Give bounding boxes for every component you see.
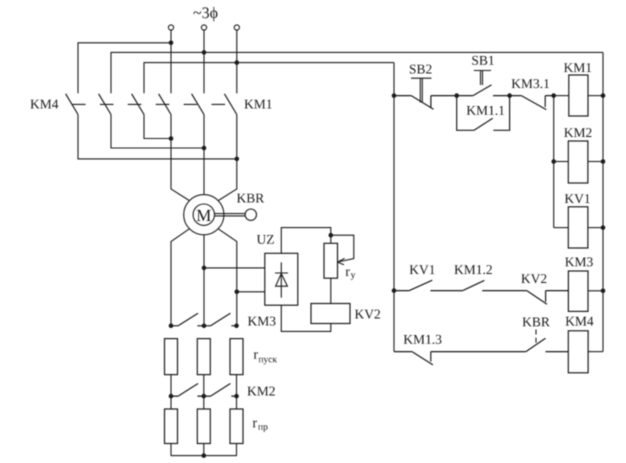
node KM2 dot2: [202, 394, 207, 399]
contact KBR dashed link: [535, 330, 537, 345]
resistor r_pusk 2: [197, 339, 210, 375]
wire phase1 vertical: [170, 30, 172, 93]
contactor KM1 pole1: [159, 94, 171, 115]
sensor KBR label: [237, 194, 264, 203]
node SB1 right junction: [507, 93, 512, 98]
contact KM3 label: [248, 317, 276, 326]
wiper loop of ry: [331, 235, 354, 262]
node KM2 dot1: [169, 394, 174, 399]
sensor KBR shaft double line: [214, 214, 245, 216]
coil KM4: [568, 331, 588, 373]
resistor r_pr 1: [165, 409, 178, 444]
wire KM4 pole2 lower to phase2 node: [111, 115, 204, 149]
contactor KM4 pole2: [99, 94, 111, 115]
coil KM1 label: [564, 63, 591, 72]
wire feed3 to KM4 pole3 and control left rail: [144, 63, 394, 94]
node junction phase1: [169, 41, 174, 46]
node junction pole3-phase1: [169, 136, 174, 141]
node junction phase2: [202, 50, 207, 55]
rectifier UZ box: [265, 253, 298, 305]
node SB2-SB1 junction: [454, 93, 459, 98]
contact KV2 NC: [527, 291, 569, 305]
wire branch3 mid: [236, 375, 238, 409]
contact KV1 label: [410, 265, 435, 274]
contact KM1.1 label: [467, 106, 504, 115]
relay KV2 label: [355, 310, 380, 319]
wire control right rail: [602, 52, 604, 351]
wire branch1 mid: [170, 375, 172, 409]
node KM3 dot3: [234, 324, 239, 329]
resistor r_pr label: [253, 421, 257, 428]
wire motor lead2 top: [203, 115, 205, 195]
wire KM4 pole1 lower to phase3 node: [78, 115, 237, 159]
wire motor lead3 bottom: [218, 229, 237, 326]
contactor KM4 pole3: [132, 94, 144, 115]
node left rail SB2 junction: [392, 93, 397, 98]
terminal L1: [168, 25, 173, 30]
node KM3 right rail junction: [601, 289, 606, 294]
contactor KM1 pole3: [224, 94, 236, 115]
node KM2 right rail junction: [601, 159, 606, 164]
wire branch to KM2 KV1: [553, 96, 555, 228]
contact KM3.1 label: [512, 79, 549, 88]
coil KM2 label: [564, 128, 591, 137]
wire phase2 vertical: [203, 30, 205, 93]
contact KM1.2 NO: [463, 280, 527, 290]
node KM2 left junction: [551, 159, 556, 164]
node junction pole1-phase3: [235, 157, 240, 162]
contact KM1.3 label: [404, 335, 442, 344]
contact KBR NO: [526, 338, 568, 351]
contact KM3 bridge1: [171, 313, 211, 326]
resistor r_pr 2: [197, 409, 210, 444]
contact KM2 bridge1: [171, 384, 211, 397]
node KM3 dot1: [169, 324, 174, 329]
button SB2 actuator: [411, 78, 432, 102]
wire feed2 to KM4 pole2 and control top rail: [111, 52, 603, 93]
wire branch2 mid: [203, 375, 205, 409]
wire control left rail: [393, 63, 395, 352]
coil KM3: [568, 271, 588, 311]
motor M inner circle: [193, 204, 214, 225]
node junction pole2-phase2: [202, 146, 207, 151]
wire KM4 pole3 lower to phase1 node: [144, 115, 171, 139]
wire motor lead3 top: [218, 115, 237, 201]
contact KM3.1 NC: [510, 96, 554, 110]
node junction tap2: [235, 290, 240, 295]
contactor KM4 label: [30, 100, 58, 109]
coil KM1: [554, 95, 569, 97]
wire UZ input tap1: [204, 267, 265, 269]
wire motor lead2 bottom: [203, 235, 205, 326]
node star junction: [202, 453, 207, 458]
wire UZ top to ry: [281, 228, 331, 254]
node junction phase3: [235, 60, 240, 65]
coil KV1: [554, 227, 569, 229]
node left rail KV1 row junction: [392, 288, 397, 293]
resistor r_pusk 3: [230, 339, 243, 375]
button SB1 contact NO: [457, 85, 510, 96]
node ~3phi label: [193, 7, 217, 22]
diode inside UZ: [275, 262, 288, 297]
button SB1 actuator: [474, 71, 491, 86]
wiper arrowhead: [338, 258, 345, 264]
contact KM1.3 NC: [394, 352, 526, 365]
wire KV2 bottom to UZ bottom: [281, 305, 331, 331]
contactor KM1 pole2: [192, 94, 204, 115]
contact KM1.2 label: [454, 265, 492, 274]
wire star point bottom: [171, 444, 237, 456]
coil KM2: [554, 161, 569, 163]
wire motor lead1 bottom: [171, 229, 189, 326]
terminal L2: [201, 25, 206, 30]
motor M outer circle: [184, 195, 224, 235]
wire phase3 vertical: [236, 30, 238, 93]
contact KM3 bridge2: [211, 313, 237, 326]
node KM1 coil junction: [551, 93, 556, 98]
resistor r_pusk 1: [165, 339, 178, 375]
node KM3 dot2: [202, 324, 207, 329]
wire ry bottom to KV2 coil: [330, 278, 332, 303]
contact KM2 label: [247, 387, 274, 396]
coil KM3 label: [565, 257, 593, 266]
node KM2 dot3: [234, 394, 239, 399]
node KM1 right rail junction: [601, 93, 606, 98]
contactor KM1 label: [244, 100, 271, 109]
button SB1 label: [472, 56, 494, 65]
motor M letter: [197, 210, 211, 221]
node KV1 right rail junction: [601, 225, 606, 230]
coil KV1 label: [565, 194, 590, 203]
contactor KM4 pole1: [66, 94, 78, 115]
wire motor lead1 top: [171, 115, 189, 201]
relay coil KV2: [311, 304, 350, 324]
resistor ry label: [346, 269, 350, 276]
resistor r_pr 3: [230, 409, 243, 444]
terminal L3: [234, 25, 239, 30]
contact KM1.1 branch: [457, 96, 510, 131]
contact KV1 NO: [394, 280, 463, 290]
node junction tap1: [202, 266, 207, 271]
resistor r_pusk label: [254, 352, 258, 359]
button SB2 label: [410, 65, 432, 74]
node junction ry top: [329, 233, 334, 238]
rectifier UZ label: [257, 235, 274, 244]
wire UZ input tap2: [237, 291, 265, 293]
contact KM2 bridge2: [211, 384, 237, 397]
coil KM4 label: [566, 317, 594, 326]
wire feed1 to KM4 pole1: [78, 43, 171, 94]
contact KV2 label: [521, 274, 546, 283]
button SB2 contact NC: [394, 96, 457, 110]
resistor ry (rheostat): [324, 243, 338, 278]
linkage dashed line KM4-KM1: [72, 103, 231, 105]
sensor KBR circle: [245, 209, 256, 220]
contact KBR label: [523, 318, 550, 327]
